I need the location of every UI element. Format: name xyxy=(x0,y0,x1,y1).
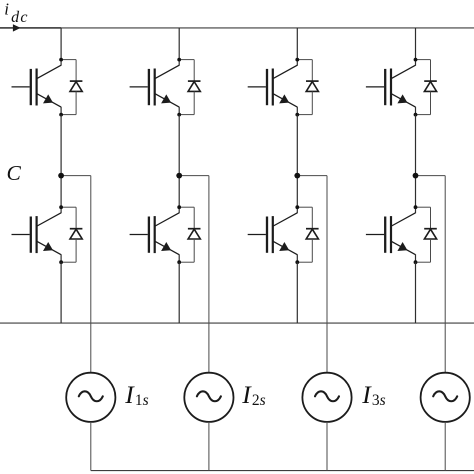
transistor Q3L (lower IGBT, leg 3) xyxy=(248,207,298,262)
wire: leg 3 lower emitter to bottom bus xyxy=(296,262,298,323)
transistor Q2L (lower IGBT, leg 2) xyxy=(130,207,180,262)
diode D1L (lower freewheeling diode, leg 1) xyxy=(61,207,82,262)
diode D2L (lower freewheeling diode, leg 2) xyxy=(179,207,200,262)
transistor Q4H (upper IGBT, leg 4) xyxy=(366,60,416,115)
current source I4s xyxy=(421,373,470,422)
diode D3H (upper freewheeling diode, leg 3) xyxy=(297,60,318,115)
node: lower emitter junction leg 2 xyxy=(177,260,181,264)
wire: leg 3 upper emitter to output node xyxy=(296,115,298,176)
wire: leg 2 upper emitter to output node xyxy=(178,115,180,176)
wire: source 4 to common rail xyxy=(444,422,446,471)
wire: leg 1 upper emitter to output node xyxy=(60,115,62,176)
node: output junction dot leg 2 xyxy=(176,173,182,179)
node: lower emitter junction leg 1 xyxy=(59,260,63,264)
wire: output branch leg 3 xyxy=(297,176,327,373)
dc current arrow xyxy=(13,24,21,31)
wire: top dc bus xyxy=(0,27,474,29)
node: lower emitter junction leg 3 xyxy=(295,260,299,264)
node: output junction dot leg 4 xyxy=(413,173,419,179)
node: lower collector junction leg 4 xyxy=(414,205,418,209)
svg-text:I2s: I2s xyxy=(241,380,265,409)
node: upper collector junction leg 3 xyxy=(295,58,299,62)
diode D3L (lower freewheeling diode, leg 3) xyxy=(297,207,318,262)
diode D4L (lower freewheeling diode, leg 4) xyxy=(416,207,437,262)
node: lower collector junction leg 1 xyxy=(59,205,63,209)
wire: output branch leg 2 xyxy=(179,176,209,373)
diode D4H (upper freewheeling diode, leg 4) xyxy=(416,60,437,115)
node: output junction dot leg 3 xyxy=(294,173,300,179)
wire: leg 2 output node to lower collector xyxy=(178,176,180,208)
wire: leg 4 output node to lower collector xyxy=(415,176,417,208)
wire: leg 2 from dc bus to upper collector xyxy=(178,28,180,60)
node: upper emitter junction leg 1 xyxy=(59,113,63,117)
node: upper collector junction leg 1 xyxy=(59,58,63,62)
current source I1s xyxy=(66,373,115,422)
transistor Q1H (upper IGBT, leg 1) xyxy=(12,60,62,115)
wire: leg 1 from dc bus to upper collector xyxy=(60,28,62,60)
svg-text:I3s: I3s xyxy=(361,380,385,409)
wire: leg 3 output node to lower collector xyxy=(296,176,298,208)
diode D1H (upper freewheeling diode, leg 1) xyxy=(61,60,82,115)
wire: leg 4 from dc bus to upper collector xyxy=(415,28,417,60)
wire: leg 2 lower emitter to bottom bus xyxy=(178,262,180,323)
current source I3s xyxy=(302,373,351,422)
svg-text:C: C xyxy=(7,161,22,185)
wire: leg 1 output node to lower collector xyxy=(60,176,62,208)
node: upper collector junction leg 2 xyxy=(177,58,181,62)
wire: leg 1 lower emitter to bottom bus xyxy=(60,262,62,323)
node: lower collector junction leg 2 xyxy=(177,205,181,209)
node: lower emitter junction leg 4 xyxy=(414,260,418,264)
wire: output branch leg 1 xyxy=(61,176,91,373)
wire: output branch leg 4 xyxy=(416,176,446,373)
wire: leg 4 lower emitter to bottom bus xyxy=(415,262,417,323)
wire: source 3 to common rail xyxy=(326,422,328,471)
wire: leg 3 from dc bus to upper collector xyxy=(296,28,298,60)
wire: ac common rail xyxy=(91,470,474,472)
transistor Q2H (upper IGBT, leg 2) xyxy=(130,60,180,115)
node: lower collector junction leg 3 xyxy=(295,205,299,209)
node: upper collector junction leg 4 xyxy=(414,58,418,62)
diode D2H (upper freewheeling diode, leg 2) xyxy=(179,60,200,115)
svg-text:idc: idc xyxy=(4,0,29,26)
transistor Q4L (lower IGBT, leg 4) xyxy=(366,207,416,262)
node: upper emitter junction leg 3 xyxy=(295,113,299,117)
node: upper emitter junction leg 4 xyxy=(414,113,418,117)
wire: source 1 to common rail xyxy=(90,422,92,471)
wire: bottom dc return bus xyxy=(0,322,474,324)
wire: source 2 to common rail xyxy=(208,422,210,471)
current source I2s xyxy=(184,373,233,422)
node: output junction dot leg 1 xyxy=(58,173,64,179)
node: upper emitter junction leg 2 xyxy=(177,113,181,117)
wire: leg 4 upper emitter to output node xyxy=(415,115,417,176)
transistor Q3H (upper IGBT, leg 3) xyxy=(248,60,298,115)
transistor Q1L (lower IGBT, leg 1) xyxy=(12,207,62,262)
svg-text:I1s: I1s xyxy=(124,380,148,409)
